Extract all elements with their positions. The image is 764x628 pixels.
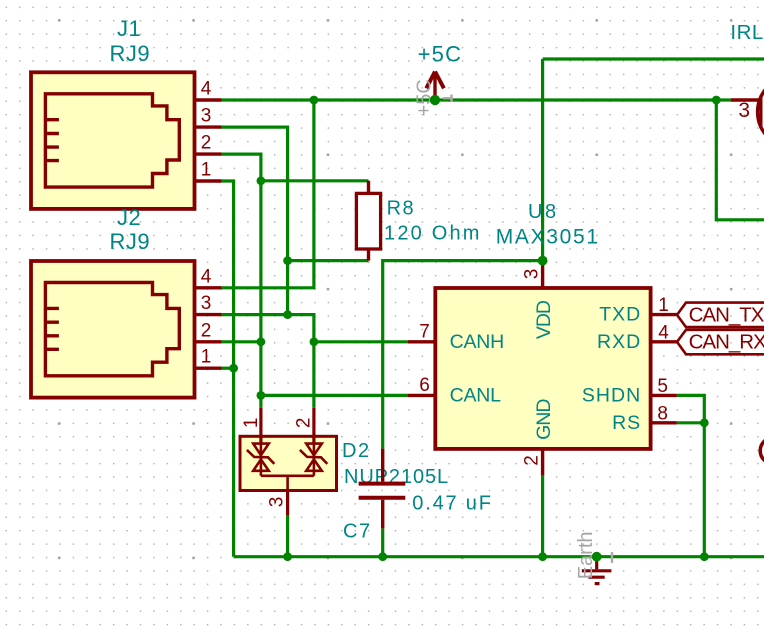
- U8 pin 2 GND stub: [541, 449, 544, 476]
- wire R8 bottom: [288, 259, 369, 262]
- U8 pin 8 stub: [651, 421, 677, 424]
- junction CANL node: [257, 391, 266, 400]
- svg-text:CAN_RX: CAN_RX: [689, 331, 764, 354]
- transistor circle bottom right: [760, 438, 764, 464]
- svg-text:6: 6: [419, 375, 430, 396]
- wire J1.4 row: [222, 98, 731, 101]
- U8 pin 7 stub: [408, 340, 435, 343]
- svg-text:3: 3: [267, 497, 288, 508]
- U8 pin 4 stub: [651, 340, 677, 343]
- junction RS column on bus: [700, 552, 709, 561]
- ground symbol Earth: [582, 557, 612, 584]
- D2 tvs element 2: [300, 444, 327, 476]
- wire J2.1: [222, 367, 234, 370]
- svg-text:3: 3: [201, 293, 212, 314]
- svg-text:0.47 uF: 0.47 uF: [412, 493, 492, 515]
- U8 pin numbers: [419, 269, 669, 466]
- svg-text:8: 8: [657, 403, 668, 424]
- wire CANH to D2.2: [312, 342, 315, 408]
- capacitor C7: [359, 449, 406, 529]
- svg-text:IRLB: IRLB: [730, 21, 764, 44]
- junction Earth on bus: [592, 552, 602, 562]
- svg-text:3: 3: [201, 106, 212, 127]
- junction D2.3 on GND bus: [283, 552, 292, 561]
- svg-text:U8: U8: [528, 201, 559, 223]
- wire CANL: [261, 394, 408, 397]
- svg-text:1: 1: [658, 295, 669, 316]
- diode D2 (NUP2105L): [240, 408, 337, 515]
- hierarchical label CAN_TX: [677, 303, 764, 328]
- junction CANH node: [310, 337, 319, 346]
- Earth ghost tick: [611, 552, 613, 563]
- wire J1.3 to CANH vertical jog: [222, 127, 288, 315]
- J2 pin stubs: [195, 288, 222, 368]
- J1 pin numbers: [201, 79, 212, 181]
- wire GND bus: [234, 555, 764, 558]
- IC U8 body: [435, 288, 650, 449]
- D2 labels: [342, 440, 449, 488]
- svg-text:4: 4: [201, 266, 212, 287]
- R8 labels: [384, 198, 482, 245]
- junction +5C power connection: [430, 95, 440, 105]
- junction R8 bottom / CANH column: [283, 256, 292, 265]
- junction R8 top / CANL column: [257, 176, 266, 185]
- wire +5C vertical to J2.4: [222, 100, 314, 288]
- wire D2.3 to bus: [286, 515, 289, 557]
- wire VDD branch to C7: [383, 261, 543, 449]
- bold grid dots: [58, 19, 733, 559]
- svg-text:CANH: CANH: [450, 331, 504, 353]
- D2 tvs element 1: [247, 444, 274, 476]
- Earth ghost pin text: [575, 531, 597, 579]
- power symbol +5C: [418, 42, 463, 96]
- svg-text:+5C: +5C: [418, 42, 463, 67]
- wire R8 top: [261, 179, 369, 182]
- J1 pin stubs: [195, 100, 222, 181]
- D2 internal bottom bar and pin 3: [261, 476, 314, 491]
- +5C ghost pin text: [414, 79, 436, 116]
- +5C ghost ticks: [443, 95, 453, 103]
- hierarchical label CAN_RX: [677, 330, 764, 355]
- svg-text:1: 1: [201, 160, 212, 181]
- junction J2.1 row GND: [229, 364, 238, 373]
- svg-text:SHDN: SHDN: [582, 385, 641, 407]
- junction J1.4/+5C column: [310, 96, 319, 105]
- connector J2: [31, 261, 195, 398]
- svg-text:RS: RS: [612, 412, 641, 434]
- svg-text:1: 1: [241, 418, 262, 429]
- junction RS/SHDN node: [700, 418, 709, 427]
- C7 labels: [343, 493, 493, 543]
- U8 pin names: [450, 300, 642, 440]
- wire top right: [543, 57, 764, 60]
- wire U8 GND to bus: [541, 476, 544, 557]
- svg-text:CAN_TX: CAN_TX: [689, 303, 764, 326]
- U8 pin 5 stub: [651, 394, 677, 397]
- svg-text:J1: J1: [117, 16, 141, 41]
- svg-text:7: 7: [419, 321, 430, 342]
- transistor Q (IRLB) top right: [731, 76, 764, 147]
- svg-text:RJ9: RJ9: [110, 41, 151, 66]
- svg-text:GND: GND: [533, 399, 555, 440]
- junction J2.3 row: [283, 310, 292, 319]
- D2 pin 2 lead: [312, 408, 315, 444]
- svg-text:4: 4: [201, 79, 212, 100]
- svg-text:TXD: TXD: [599, 304, 641, 326]
- D2 pin numbers: [241, 418, 315, 508]
- svg-text:C7: C7: [343, 520, 372, 542]
- svg-text:CANL: CANL: [450, 385, 502, 407]
- wire RS: [677, 421, 705, 424]
- svg-text:R8: R8: [387, 198, 416, 220]
- resistor R8: [356, 181, 380, 261]
- connector J1: [31, 72, 195, 209]
- svg-text:120 Ohm: 120 Ohm: [384, 223, 482, 245]
- wire SHDN: [677, 395, 705, 556]
- svg-text:RJ9: RJ9: [110, 229, 151, 254]
- svg-text:3: 3: [738, 99, 750, 122]
- junction U8 GND on bus: [538, 552, 547, 561]
- svg-text:3: 3: [522, 269, 543, 280]
- svg-text:MAX3051: MAX3051: [496, 225, 600, 248]
- wire J1.1 to ground vertical: [222, 181, 234, 557]
- wire J2.2: [222, 340, 261, 343]
- J2 labels: [110, 205, 151, 254]
- U8 pin 1 stub: [651, 313, 677, 316]
- junction J2.2 row CANL: [257, 337, 266, 346]
- U8 pin 3 VDD stub: [541, 262, 544, 289]
- wire C7 bottom to bus: [381, 528, 384, 556]
- svg-text:5: 5: [657, 376, 668, 397]
- U8 labels: [496, 201, 600, 248]
- junction U8 VDD node: [538, 256, 548, 266]
- wire CANH: [314, 340, 408, 343]
- junction IRLB drain node: [712, 96, 721, 105]
- wire VDD vertical from top: [541, 59, 544, 261]
- svg-text:1: 1: [201, 347, 212, 368]
- svg-text:2: 2: [201, 133, 212, 154]
- svg-text:J2: J2: [117, 205, 141, 230]
- svg-text:4: 4: [658, 322, 669, 343]
- svg-text:2: 2: [522, 455, 543, 466]
- wire IRLB drain vertical: [716, 100, 764, 220]
- svg-text:D2: D2: [342, 440, 371, 462]
- J2 pin numbers: [201, 266, 212, 367]
- U8 pin 6 stub: [408, 394, 435, 397]
- J1 labels: [110, 16, 151, 66]
- D2 pin 1 lead: [259, 408, 262, 444]
- svg-text:2: 2: [294, 418, 315, 429]
- svg-text:RXD: RXD: [597, 331, 641, 353]
- junction C7 on GND bus: [378, 552, 387, 561]
- wire J1.2 to CANL vertical: [222, 154, 261, 408]
- svg-text:VDD: VDD: [533, 300, 555, 339]
- wire J2.3: [222, 315, 314, 342]
- svg-text:2: 2: [201, 320, 212, 341]
